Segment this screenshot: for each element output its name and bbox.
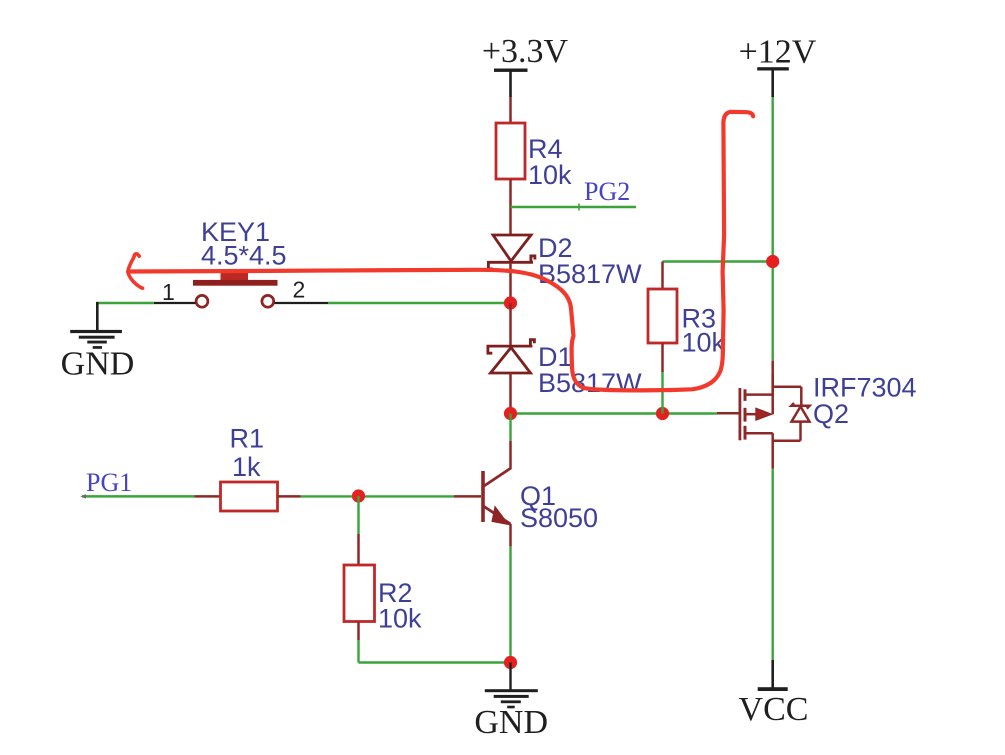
svg-text:VCC: VCC: [739, 691, 809, 728]
node junction D1 bottom: [504, 407, 517, 420]
svg-text:R1: R1: [230, 424, 265, 454]
transistor Q2 IRF7304: [717, 373, 917, 469]
svg-text:+12V: +12V: [739, 34, 817, 71]
wire emitter down: [509, 546, 511, 662]
wire collector green: [509, 414, 511, 442]
resistor R1: [221, 424, 278, 512]
wire D1 anode to node: [509, 373, 512, 414]
wire D2 cathode to node: [509, 263, 512, 303]
svg-text:PG1: PG1: [86, 468, 132, 497]
svg-text:Q2: Q2: [813, 399, 849, 429]
wire key pin1 to GND corner: [97, 302, 154, 304]
wire source to VCC: [772, 469, 774, 661]
svg-text:B5817W: B5817W: [538, 368, 642, 398]
wire R1 to base node: [301, 495, 455, 497]
svg-text:+3.3V: +3.3V: [482, 33, 569, 70]
svg-text:10k: 10k: [528, 160, 572, 190]
wire R1 right lead: [278, 495, 301, 498]
wire R3 bottom lead: [661, 343, 664, 372]
wire node to gate net: [511, 412, 718, 414]
node PG1: [80, 468, 194, 499]
wire base lead: [454, 495, 481, 498]
wire node to D1 cathode: [509, 303, 512, 346]
ground GND bottom: [474, 663, 548, 742]
wire R4 top lead: [509, 97, 512, 123]
wire PG1 to R1: [195, 495, 221, 498]
svg-text:4.5*4.5: 4.5*4.5: [201, 241, 287, 271]
node junction R3 bottom: [656, 407, 669, 420]
node junction emitter/R2/GND: [504, 656, 517, 669]
svg-text:10k: 10k: [682, 328, 726, 358]
svg-text:2: 2: [293, 277, 306, 303]
node junction R1/R2: [352, 489, 365, 502]
svg-text:PG2: PG2: [584, 177, 630, 206]
svg-text:GND: GND: [61, 346, 135, 383]
svg-text:IRF7304: IRF7304: [813, 373, 917, 403]
diode D1: [488, 340, 642, 398]
svg-text:10k: 10k: [378, 604, 422, 634]
wire drain lead: [771, 361, 774, 395]
svg-text:1: 1: [162, 279, 175, 305]
node PG2: [511, 177, 637, 211]
wire R2 branch: [357, 496, 359, 534]
resistor R3: [648, 289, 726, 358]
wire +12V rail: [772, 97, 774, 361]
resistor R2: [344, 565, 422, 634]
wire R2 bottom: [357, 622, 360, 641]
wire key pin2 to node: [328, 302, 511, 304]
power +3.3V: [482, 33, 569, 97]
svg-text:S8050: S8050: [520, 503, 598, 533]
wire R2 to GND node: [359, 661, 511, 663]
transistor Q1 S8050: [483, 441, 598, 546]
wire R3 top from +12V rail: [663, 260, 773, 262]
key KEY1: [154, 217, 328, 307]
ground GND left: [61, 302, 135, 383]
svg-text:GND: GND: [474, 704, 548, 741]
node junction D2/KEY: [504, 296, 517, 309]
power VCC: [739, 660, 809, 728]
diode D2: [488, 233, 642, 289]
wire R4 bottom lead to D2: [509, 179, 512, 235]
resistor R4: [496, 123, 572, 190]
node junction +12V / R3: [766, 255, 779, 268]
annotation red marker stroke: [128, 112, 753, 391]
power +12V: [739, 34, 817, 98]
svg-text:1k: 1k: [232, 452, 261, 482]
